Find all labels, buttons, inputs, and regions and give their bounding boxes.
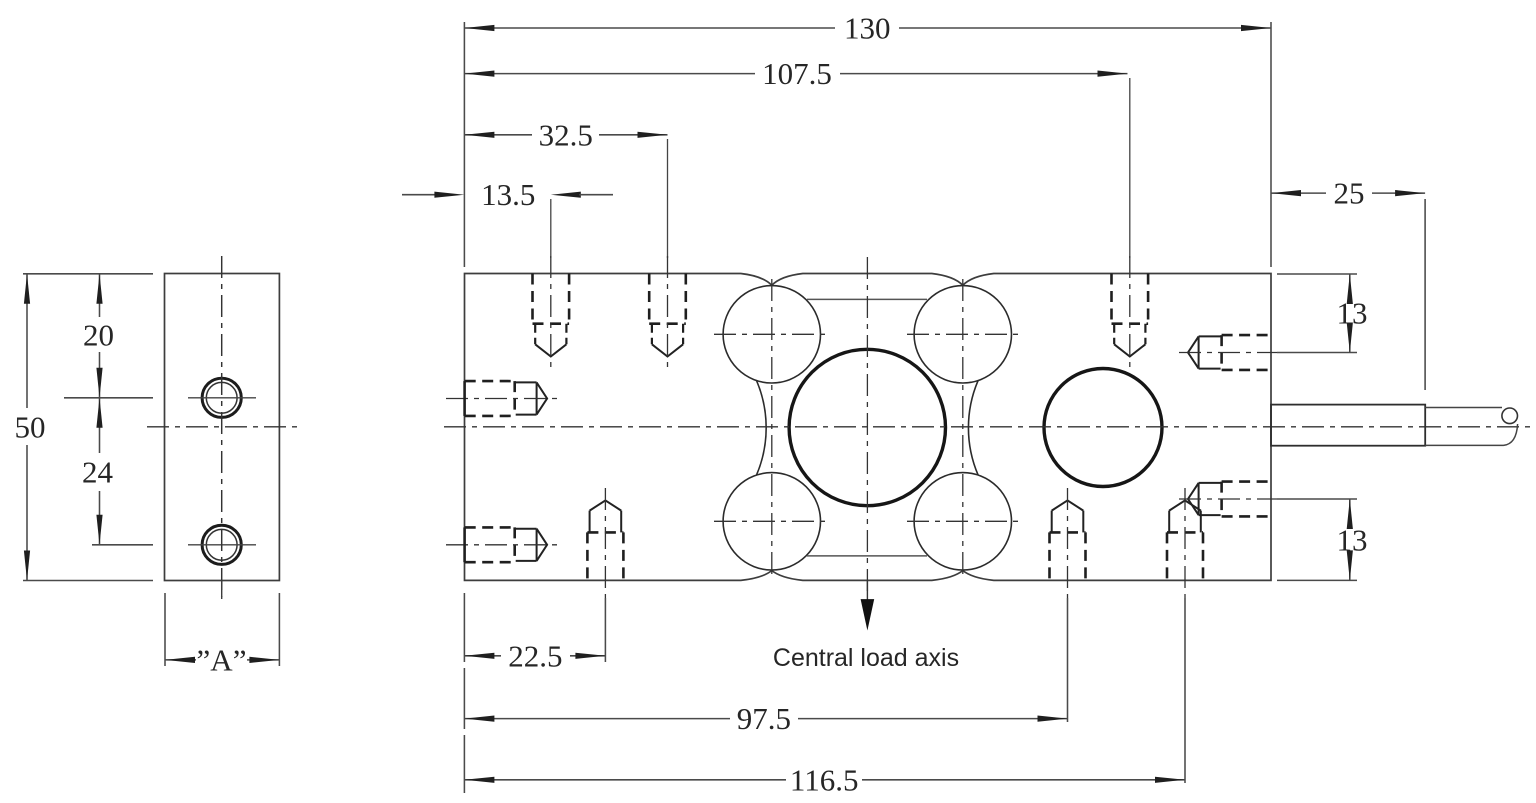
svg-text:24: 24 [82, 455, 114, 490]
svg-text:Central load axis: Central load axis [773, 644, 959, 672]
svg-text:13: 13 [1337, 296, 1368, 331]
svg-text:130: 130 [844, 11, 891, 46]
svg-text:13: 13 [1337, 523, 1368, 558]
svg-text:32.5: 32.5 [539, 117, 593, 152]
svg-text:22.5: 22.5 [508, 638, 562, 673]
svg-text:25: 25 [1334, 176, 1365, 211]
svg-text:97.5: 97.5 [737, 701, 791, 736]
svg-text:20: 20 [83, 317, 114, 352]
svg-text:50: 50 [15, 410, 46, 445]
svg-text:”A”: ”A” [197, 643, 247, 678]
svg-text:116.5: 116.5 [790, 762, 859, 797]
svg-text:107.5: 107.5 [762, 56, 832, 91]
svg-text:13.5: 13.5 [481, 177, 535, 212]
